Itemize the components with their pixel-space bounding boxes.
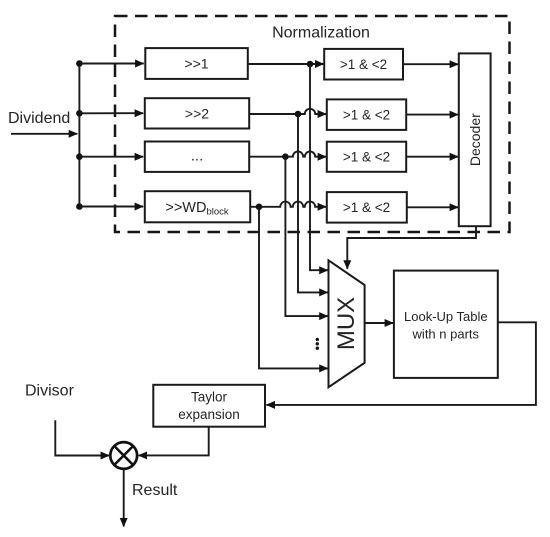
svg-text:with n parts: with n parts (412, 327, 480, 342)
wire comparator4 to decoder (407, 206, 458, 208)
svg-text:>1 & <2: >1 & <2 (343, 200, 390, 215)
node junction row4 tap (256, 204, 263, 211)
box comparator1 >1 & <2 (324, 49, 403, 80)
svg-text:>>2: >>2 (185, 106, 209, 122)
wire Result output arrow (123, 469, 125, 527)
box shifter >>WDblock (145, 191, 250, 222)
wire Dividend vertical bus (78, 64, 80, 207)
wire bus to shifter 2 (79, 112, 143, 114)
svg-text:Normalization: Normalization (272, 25, 370, 42)
wire MUX output to LUT (365, 322, 394, 324)
box comparator2 >1 & <2 (327, 99, 406, 129)
wire decoder select to MUX (347, 226, 476, 269)
wire shifter2 to comparator2 with hop (249, 109, 326, 114)
box shifter >>2 (145, 98, 249, 128)
wire shifter1 to comparator1 (248, 63, 324, 65)
svg-text:Result: Result (132, 482, 178, 499)
svg-text:>1 & <2: >1 & <2 (340, 57, 387, 72)
wire Dividend input arrow (11, 133, 77, 135)
node junction row4 bus (76, 203, 83, 210)
wire shifter3 to comparator3 with hops (249, 151, 326, 156)
svg-text:Taylor: Taylor (191, 390, 228, 405)
wire bus to shifter 3 (79, 156, 143, 158)
svg-text:>1 & <2: >1 & <2 (343, 150, 390, 165)
svg-text:Dividend: Dividend (8, 110, 70, 127)
svg-text:Look-Up Table: Look-Up Table (404, 309, 488, 324)
box Look-Up Table (394, 271, 498, 378)
svg-text:Divisor: Divisor (25, 383, 75, 400)
node junction row3 tap (282, 153, 289, 160)
svg-text:MUX: MUX (333, 297, 360, 350)
wire LUT output loop to Taylor expansion (266, 322, 536, 405)
node ellipsis more MUX inputs (316, 338, 319, 350)
wire bus to shifter 1 (79, 63, 143, 65)
svg-text:>1 & <2: >1 & <2 (343, 108, 390, 123)
wire comparator1 to decoder (403, 63, 458, 65)
wire tap3 vertical to MUX input3 (285, 157, 327, 316)
box shifter >>1 (145, 48, 248, 79)
svg-text:...: ... (191, 148, 204, 165)
node junction row2 bus (76, 110, 83, 117)
box Taylor expansion (153, 385, 265, 427)
wire tap2 vertical to MUX input2 (298, 114, 328, 292)
wire shifter4 to comparator4 with hops (250, 202, 326, 207)
box Decoder (459, 53, 491, 226)
svg-text:>>1: >>1 (184, 56, 208, 72)
wire bus to shifter 4 (79, 206, 143, 208)
wire comparator3 to decoder (406, 156, 458, 158)
wire Divisor to multiplier (55, 420, 109, 455)
node junction row2 tap (295, 111, 302, 118)
wire tap1 vertical to MUX input1 (310, 64, 328, 270)
box comparator3 >1 & <2 (327, 142, 406, 172)
node junction row3 bus (76, 153, 83, 160)
box comparator4 >1 & <2 (327, 192, 407, 223)
svg-text:expansion: expansion (178, 407, 240, 422)
wire tap4 vertical to MUX input4 (259, 207, 328, 369)
svg-text:Decoder: Decoder (467, 113, 483, 166)
multiplier circle-X (110, 442, 137, 469)
wire comparator2 to decoder (406, 114, 458, 116)
MUX trapezoid (329, 260, 365, 387)
dashed Normalization boundary box (115, 16, 510, 232)
node junction row1 bus (76, 60, 83, 67)
node junction row1 tap (307, 61, 314, 68)
wire Taylor to multiplier (139, 427, 209, 456)
box shifter ... (145, 142, 249, 172)
